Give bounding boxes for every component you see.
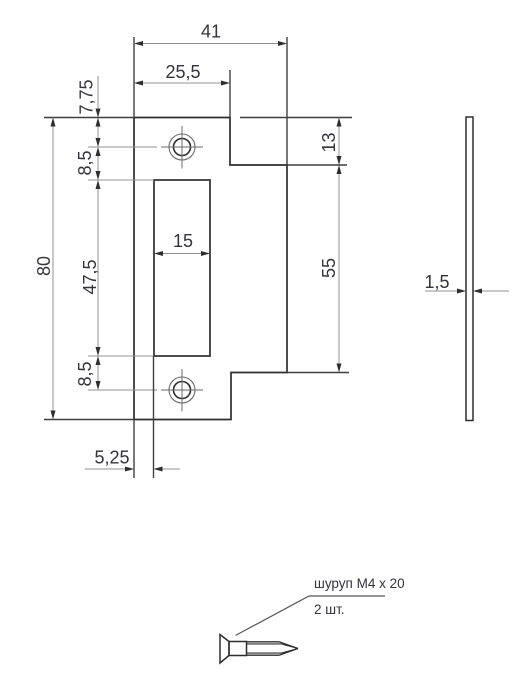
svg-text:25,5: 25,5 [165,62,200,82]
dimension 25,5 [134,62,230,86]
latch cutout [154,180,210,356]
label screw quantity [314,602,345,617]
plate outline [134,118,287,420]
screw head [220,635,229,664]
svg-text:5,25: 5,25 [94,448,129,468]
screw thread and tip [247,642,299,655]
svg-text:1,5: 1,5 [424,272,449,292]
extension line hole1 centerline left [88,146,157,148]
extension line lower step right (for 55) [287,372,349,374]
extension line top edge right (for 13) [240,117,352,119]
dimension 55 [319,165,342,373]
extension line bottom edge left [44,419,134,421]
dimension 80 [34,118,56,420]
svg-text:2 шт.: 2 шт. [314,602,345,617]
dimension 7,75 arrows [96,118,101,148]
svg-text:55: 55 [319,258,339,278]
extension line cutout top left [88,179,154,181]
side view plate [466,117,473,421]
dimension 8,5 bottom [75,356,101,390]
svg-text:41: 41 [201,22,221,42]
extension line top edge left [44,117,134,119]
extension line hole2 centerline left [88,389,157,391]
screw leader line [236,596,385,635]
extension line step edge right (for 13/55) [287,164,347,166]
dimension 1,5 [424,272,509,294]
svg-text:13: 13 [319,132,339,152]
screw hole top [161,126,203,169]
svg-text:80: 80 [34,256,54,276]
dimension 7,75 leader [77,76,101,118]
extension line left edge above plate [133,37,135,118]
svg-text:8,5: 8,5 [75,361,95,386]
svg-text:шуруп М4 х 20: шуруп М4 х 20 [314,576,405,591]
svg-text:7,75: 7,75 [77,79,97,114]
dimension 41 [134,22,287,47]
extension line right edge above plate [286,37,288,165]
extension line notch corner above plate [229,70,231,118]
dimension 5,25 [85,448,180,472]
label screw type [314,576,405,591]
dimension 13 [319,118,342,166]
dimension 47,5 [80,180,101,356]
dimension 8,5 top [75,147,101,180]
svg-text:47,5: 47,5 [80,259,100,294]
svg-text:15: 15 [173,231,193,251]
screw shank [229,642,247,656]
extension line cutout bottom left [88,355,154,357]
dimension 15 [154,231,210,256]
svg-text:8,5: 8,5 [75,150,95,175]
extension line plate left below (for 5,25) [133,420,135,479]
extension line cutout left below (for 5,25) [153,356,155,478]
screw hole bottom [161,369,203,412]
